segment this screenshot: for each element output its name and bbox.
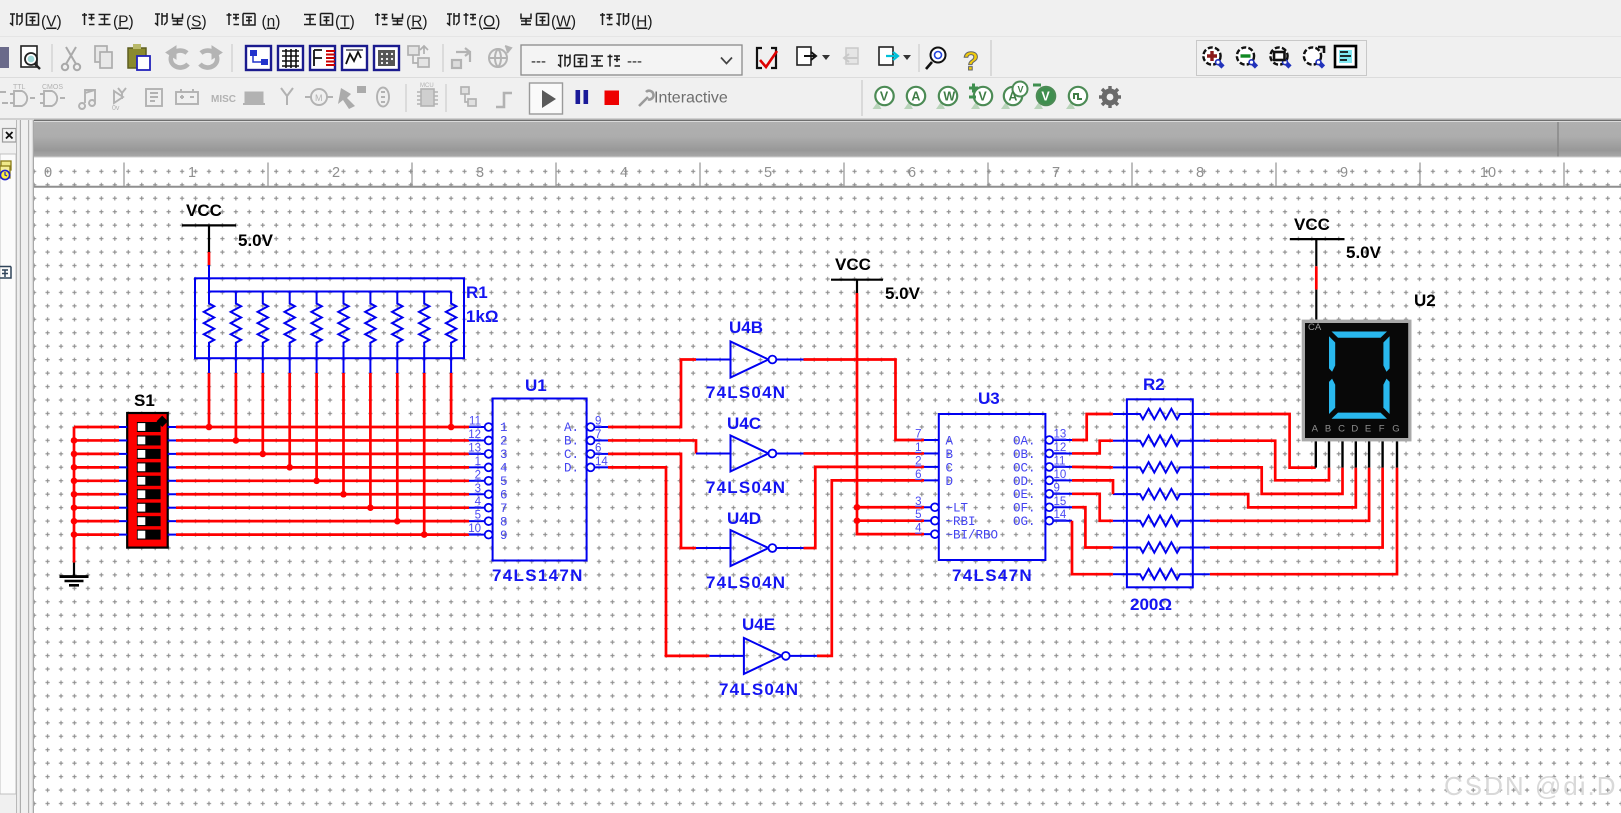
wire R2 to display segment A bbox=[1210, 414, 1316, 468]
switch S1 (9-pos DIP) bbox=[127, 413, 168, 548]
svg-text:74LS04N: 74LS04N bbox=[706, 478, 786, 497]
svg-text:U4B: U4B bbox=[729, 318, 763, 337]
svg-text:10: 10 bbox=[1054, 469, 1067, 481]
svg-text:(W): (W) bbox=[551, 14, 576, 31]
svg-text:7: 7 bbox=[595, 429, 601, 441]
ground bus wire (left) bbox=[73, 427, 76, 563]
wire R2 to display segment G bbox=[1210, 468, 1397, 575]
svg-text:R2: R2 bbox=[1143, 375, 1165, 394]
svg-text:~LT: ~LT bbox=[946, 502, 969, 516]
U1 pin numbers right bbox=[595, 416, 608, 468]
display U2 seven-segment bbox=[1302, 320, 1412, 442]
svg-text:2: 2 bbox=[500, 435, 508, 449]
svg-text:1: 1 bbox=[915, 442, 921, 454]
resistor pack R2 200ohm bbox=[1113, 399, 1210, 587]
svg-text:B.: B. bbox=[564, 435, 579, 449]
svg-text:R1: R1 bbox=[466, 283, 488, 302]
wire U3.OG to R2 bbox=[1072, 521, 1113, 575]
svg-text:U4E: U4E bbox=[742, 615, 775, 634]
svg-text:CA: CA bbox=[1308, 322, 1322, 333]
menu bar background bbox=[0, 0, 1621, 36]
wire R2 to display segment B bbox=[1210, 441, 1329, 481]
svg-text:~RBI: ~RBI bbox=[946, 515, 976, 529]
svg-text:CSDN @di.D: CSDN @di.D bbox=[1444, 771, 1618, 801]
power VCC2 symbol bbox=[831, 255, 921, 303]
inverter U4C 74LS04N bbox=[696, 435, 804, 471]
design toolbox tab icon bbox=[0, 161, 11, 180]
wires S1 rows to U1 inputs bbox=[74, 427, 485, 535]
svg-text:14: 14 bbox=[595, 456, 608, 468]
svg-text:15: 15 bbox=[1054, 496, 1067, 508]
wire U3.OD to R2 bbox=[1072, 480, 1113, 494]
svg-text:3: 3 bbox=[500, 448, 508, 462]
svg-text:6: 6 bbox=[500, 488, 508, 502]
svg-text:(R): (R) bbox=[406, 14, 428, 31]
svg-text:5: 5 bbox=[915, 509, 921, 521]
svg-text:W: W bbox=[943, 90, 955, 104]
wire R2 to display segment D bbox=[1210, 468, 1356, 508]
svg-text:3: 3 bbox=[475, 483, 481, 495]
svg-text:U4C: U4C bbox=[727, 414, 761, 433]
U1 inner pin names bbox=[500, 421, 579, 543]
svg-text:A: A bbox=[911, 90, 920, 104]
label R1 value 1k bbox=[466, 283, 499, 326]
svg-text:CMOS: CMOS bbox=[42, 84, 63, 91]
svg-text:1: 1 bbox=[475, 456, 481, 468]
wire U1.B to U4C bbox=[608, 440, 696, 453]
ground symbol bbox=[60, 563, 89, 586]
U3 inner pin names bbox=[946, 434, 1036, 542]
inverter U4D 74LS04N bbox=[696, 530, 804, 566]
svg-text:(S): (S) bbox=[186, 14, 207, 31]
svg-text:5.0V: 5.0V bbox=[885, 284, 921, 303]
svg-text:U1: U1 bbox=[525, 376, 547, 395]
power VCC1 symbol bbox=[182, 201, 274, 250]
toolbar row1 bbox=[0, 44, 511, 72]
svg-text:74LS147N: 74LS147N bbox=[492, 566, 584, 585]
probe buttons bbox=[873, 87, 894, 109]
svg-text:E: E bbox=[1365, 424, 1371, 435]
wire U4C out to U3.B bbox=[804, 452, 925, 455]
simulation run/pause/stop bbox=[530, 83, 563, 114]
svg-text:C: C bbox=[946, 461, 954, 475]
inverter U4E 74LS04N bbox=[709, 638, 817, 674]
svg-text:OA.: OA. bbox=[1013, 434, 1036, 448]
svg-text:U3: U3 bbox=[978, 389, 1000, 408]
menu bar items bbox=[10, 13, 629, 25]
svg-text:B: B bbox=[1325, 424, 1331, 435]
svg-text:(O): (O) bbox=[478, 14, 500, 31]
svg-text:5: 5 bbox=[500, 475, 508, 489]
svg-text:B: B bbox=[946, 448, 954, 462]
U3 pin numbers right bbox=[1054, 429, 1067, 522]
svg-text:11: 11 bbox=[469, 416, 481, 428]
svg-text:12: 12 bbox=[468, 429, 481, 441]
svg-text:OB.: OB. bbox=[1013, 448, 1036, 462]
IC U1 74LS147N priority encoder bbox=[485, 399, 608, 561]
wire U1.A to U4B bbox=[608, 360, 696, 428]
svg-text:1kΩ: 1kΩ bbox=[466, 307, 499, 326]
wire U1.C to U4D bbox=[608, 454, 696, 548]
svg-text:(V): (V) bbox=[41, 14, 62, 31]
svg-text:U4D: U4D bbox=[727, 509, 761, 528]
svg-text:(P): (P) bbox=[113, 14, 134, 31]
svg-text:74LS04N: 74LS04N bbox=[719, 680, 799, 699]
svg-text:V: V bbox=[1041, 90, 1050, 104]
wires R1 outputs to switch rows bbox=[209, 358, 451, 534]
svg-text:10: 10 bbox=[468, 523, 481, 535]
zoom toolbar bbox=[1197, 41, 1367, 76]
svg-text:74LS04N: 74LS04N bbox=[706, 573, 786, 592]
inverter U4B 74LS04N bbox=[696, 342, 804, 378]
svg-text:A.: A. bbox=[564, 421, 579, 435]
svg-text:2: 2 bbox=[915, 455, 921, 467]
wire U3.OC to R2 bbox=[1072, 466, 1113, 469]
power VCC3 symbol bbox=[1290, 215, 1382, 262]
svg-text:Interactive: Interactive bbox=[654, 90, 728, 107]
svg-text:0v: 0v bbox=[112, 105, 120, 112]
IC U3 74LS47N decoder bbox=[924, 414, 1072, 560]
junction dots R1 to rows bbox=[206, 424, 455, 538]
svg-text:TTL: TTL bbox=[13, 84, 26, 91]
svg-text:14: 14 bbox=[1054, 509, 1067, 521]
svg-text:4: 4 bbox=[475, 496, 482, 508]
svg-text:11: 11 bbox=[1054, 455, 1066, 467]
svg-text:VCC: VCC bbox=[1294, 215, 1330, 234]
toolbar row2 component icons (disabled gray) bbox=[0, 84, 198, 112]
svg-text:9: 9 bbox=[500, 529, 508, 543]
svg-text:7: 7 bbox=[500, 502, 508, 516]
wire R2 to display segment F bbox=[1210, 468, 1383, 548]
wire U1.D to U4E bbox=[608, 467, 709, 656]
wire U3.OF to R2 bbox=[1072, 507, 1113, 547]
wire R2 to display segment E bbox=[1210, 468, 1369, 521]
svg-text:G: G bbox=[1392, 424, 1399, 435]
svg-text:5.0V: 5.0V bbox=[238, 231, 274, 250]
svg-text:13: 13 bbox=[468, 442, 481, 454]
svg-text:8: 8 bbox=[500, 515, 508, 529]
svg-text:A: A bbox=[1312, 424, 1319, 435]
svg-text:2: 2 bbox=[475, 469, 481, 481]
svg-text:MCU: MCU bbox=[420, 83, 434, 89]
ruler bbox=[34, 158, 1621, 187]
svg-text:V: V bbox=[1018, 85, 1024, 95]
svg-text:9: 9 bbox=[595, 416, 601, 428]
svg-text:D.: D. bbox=[564, 462, 579, 476]
svg-text:1: 1 bbox=[500, 421, 508, 435]
svg-text:6: 6 bbox=[595, 442, 601, 454]
wire U4B out to U3.A bbox=[804, 360, 925, 441]
svg-text:13: 13 bbox=[1054, 429, 1067, 441]
svg-text:6: 6 bbox=[915, 469, 921, 481]
svg-text:3: 3 bbox=[915, 496, 921, 508]
svg-text:MISC: MISC bbox=[211, 94, 236, 105]
svg-text:---: --- bbox=[627, 53, 642, 70]
wire U3.OA to R2 bbox=[1072, 414, 1113, 440]
dot grid bbox=[34, 158, 1621, 813]
svg-text:200Ω: 200Ω bbox=[1130, 595, 1172, 614]
svg-text:F: F bbox=[1379, 424, 1385, 435]
svg-text:74LS47N: 74LS47N bbox=[952, 566, 1033, 585]
svg-text:V: V bbox=[880, 90, 889, 104]
svg-text:~BI/RBO: ~BI/RBO bbox=[946, 529, 999, 543]
svg-text:(H): (H) bbox=[631, 14, 653, 31]
wire VCC3 to display CA bbox=[1315, 239, 1317, 320]
wire VCC1 to R1 bbox=[208, 225, 210, 291]
svg-text:7: 7 bbox=[915, 429, 921, 441]
svg-text:5: 5 bbox=[475, 510, 481, 522]
in-use list dropdown bbox=[521, 45, 742, 75]
svg-text:VCC: VCC bbox=[186, 201, 222, 220]
svg-text:OF.: OF. bbox=[1013, 502, 1036, 516]
svg-text:4: 4 bbox=[915, 523, 922, 535]
svg-text:VCC: VCC bbox=[835, 255, 871, 274]
wire R2 to display segment C bbox=[1210, 467, 1343, 494]
wire U4E out to U3.D bbox=[817, 480, 924, 656]
svg-text:A: A bbox=[1008, 90, 1017, 104]
svg-text:C.: C. bbox=[564, 448, 579, 462]
svg-text:4: 4 bbox=[500, 462, 508, 476]
svg-text:12: 12 bbox=[1054, 442, 1067, 454]
U1 pin numbers left bbox=[468, 416, 481, 536]
svg-text:---: --- bbox=[531, 53, 546, 70]
svg-text:M: M bbox=[315, 93, 323, 103]
svg-text:OC.: OC. bbox=[1013, 461, 1036, 475]
wire U3.OE to R2 bbox=[1072, 494, 1113, 521]
svg-text:74LS04N: 74LS04N bbox=[706, 383, 786, 402]
U3 pin numbers left bbox=[915, 429, 922, 535]
wire VCC2 to U3 control pins bbox=[857, 280, 924, 534]
svg-text:A: A bbox=[946, 434, 954, 448]
svg-text:U2: U2 bbox=[1414, 291, 1436, 310]
wire U3.OB to R2 bbox=[1072, 441, 1113, 454]
wire U4D out to U3.C bbox=[804, 467, 925, 548]
resistor network R1 1k bbox=[195, 278, 464, 358]
svg-text:OD.: OD. bbox=[1013, 475, 1036, 489]
junction dots VCC2 bus bbox=[854, 504, 861, 524]
svg-text:D: D bbox=[946, 475, 954, 489]
svg-text:OG.: OG. bbox=[1013, 515, 1036, 529]
svg-text:(T): (T) bbox=[335, 14, 355, 31]
display pins bbox=[1316, 441, 1397, 467]
junction dots on bus bbox=[71, 437, 78, 538]
svg-text:V: V bbox=[978, 90, 987, 104]
svg-text:(n): (n) bbox=[262, 14, 281, 31]
svg-text:5.0V: 5.0V bbox=[1346, 243, 1382, 262]
svg-text:D: D bbox=[1351, 424, 1358, 435]
svg-text:?: ? bbox=[963, 46, 979, 76]
left sidebar bbox=[0, 120, 33, 813]
svg-text:9: 9 bbox=[1054, 482, 1060, 494]
svg-text:S1: S1 bbox=[134, 391, 155, 410]
svg-text:C: C bbox=[1338, 424, 1345, 435]
svg-text:OE.: OE. bbox=[1013, 488, 1036, 502]
